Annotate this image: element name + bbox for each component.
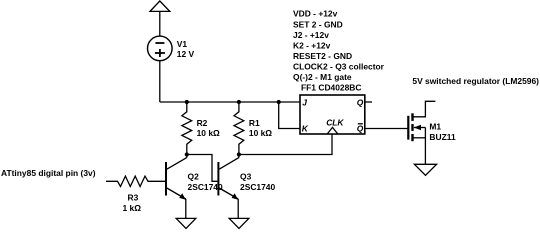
svg-text:FF1 CD4028BC: FF1 CD4028BC (301, 83, 362, 93)
mosfet M1 body lead with arrow (414, 127, 425, 129)
svg-text:1 kΩ: 1 kΩ (123, 203, 142, 213)
transistor Q3 (217, 162, 219, 196)
svg-text:K: K (302, 124, 309, 134)
resistor R1 (234, 102, 244, 155)
label 5V regulator note (412, 76, 539, 86)
svg-text:Q3: Q3 (240, 172, 252, 182)
svg-text:V1: V1 (177, 39, 188, 49)
mosfet M1 source lead (413, 137, 426, 139)
mosfet M1 drain lead (413, 101, 436, 117)
svg-text:K2 - +12v: K2 - +12v (293, 40, 331, 50)
svg-text:Q2: Q2 (188, 172, 200, 182)
label Q2 (188, 172, 223, 193)
svg-text:2SC1740: 2SC1740 (240, 182, 275, 192)
label FF1 pin assignments (293, 9, 385, 93)
svg-text:VDD - +12v: VDD - +12v (293, 9, 338, 19)
svg-text:12 V: 12 V (177, 49, 195, 59)
svg-text:10 kΩ: 10 kΩ (197, 128, 220, 138)
svg-text:10 kΩ: 10 kΩ (249, 128, 272, 138)
wire K branch (279, 102, 300, 129)
svg-text:R1: R1 (249, 118, 260, 128)
svg-text:R3: R3 (128, 193, 139, 203)
flip-flop U FF1 box (300, 95, 365, 134)
wire M1 source to ground (424, 128, 426, 165)
label V1 12 V (177, 39, 195, 59)
resistor R3 (106, 176, 165, 186)
node R2 top (185, 100, 189, 104)
svg-text:J: J (302, 97, 307, 107)
clock edge wedge (327, 127, 337, 133)
svg-text:BUZ11: BUZ11 (429, 132, 456, 142)
node R1 top (237, 100, 241, 104)
svg-text:CLK: CLK (326, 118, 344, 128)
ground Q2 (176, 218, 196, 228)
Qbar overline (358, 123, 363, 125)
transistor Q2 (165, 162, 167, 196)
wire Qbar to M1 gate (365, 128, 408, 130)
svg-text:Q: Q (357, 124, 364, 134)
label R2 value (197, 118, 220, 138)
svg-text:R2: R2 (197, 118, 208, 128)
svg-text:J2 - +12v: J2 - +12v (293, 30, 329, 40)
svg-text:Q: Q (357, 97, 364, 107)
svg-text:Q(-)2 - M1 gate: Q(-)2 - M1 gate (293, 72, 352, 82)
svg-text:M1: M1 (429, 122, 441, 132)
label R3 value (123, 193, 142, 214)
wire +12V bus (160, 101, 300, 103)
resistor R2 (182, 102, 192, 155)
label R1 value (249, 118, 272, 138)
mosfet M1 gate bar (407, 116, 409, 140)
wire Q stub (365, 101, 372, 103)
ground M1 (414, 164, 436, 175)
power VCC symbol (150, 1, 170, 11)
wire CLK net (239, 134, 332, 155)
svg-text:SET 2 - GND: SET 2 - GND (293, 19, 343, 29)
svg-text:RESET2 - GND: RESET2 - GND (293, 51, 352, 61)
node Q3 collector (237, 152, 241, 156)
svg-text:CLOCK2 - Q3 collector: CLOCK2 - Q3 collector (293, 62, 385, 72)
svg-text:ATtiny85 digital pin (3v): ATtiny85 digital pin (3v) (1, 168, 96, 178)
pin label J (302, 97, 364, 133)
wire VCC to V1 (159, 11, 161, 36)
ground Q3 (229, 218, 249, 228)
label M1 (429, 122, 456, 143)
label Q3 (240, 172, 275, 193)
node J/K branch (277, 100, 281, 104)
label ATtiny85 input (1, 168, 96, 178)
wire cross-coupling Q2 collector to Q3 base (187, 155, 218, 182)
mosfet M1 channel segments (411, 113, 413, 141)
node Q2 collector (185, 152, 189, 156)
svg-text:5V switched regulator (LM2596): 5V switched regulator (LM2596) (412, 76, 539, 86)
voltage source V1 (148, 36, 173, 61)
wire V1 to bus (159, 61, 161, 102)
